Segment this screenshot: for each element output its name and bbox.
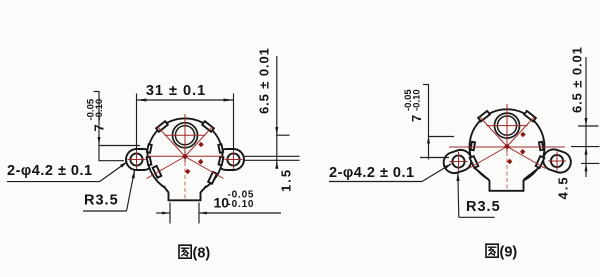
svg-text:7: 7 (92, 124, 107, 131)
bottom skirt fig9 (474, 165, 540, 191)
red crosshair right hole fig9 (548, 152, 566, 171)
ear seam marks fig9 (471, 142, 544, 150)
can notch upper-left fig8 (156, 121, 168, 131)
svg-text:7: 7 (409, 115, 424, 122)
boss outer circle fig8 (173, 123, 198, 148)
dimension 31±0.1 fig8 (137, 83, 234, 149)
red center diamond fig9 (504, 144, 510, 150)
svg-text:R3.5: R3.5 (466, 199, 501, 215)
dimension 7 -0.05/-0.10 fig9 (403, 85, 454, 160)
dimension 4.5 fig9 (556, 175, 571, 199)
svg-text:-0.10: -0.10 (228, 199, 255, 210)
red centerline horizontal fig8 (148, 155, 223, 157)
spot diamond 1 fig9 (520, 132, 525, 138)
red boss horizontal centerline fig9 (487, 125, 528, 127)
red ray upper-left fig8 (158, 127, 186, 157)
red ray upper-right fig8 (185, 127, 213, 157)
ear seam marks fig8 (147, 144, 224, 165)
svg-text:6.5 ± 0.01: 6.5 ± 0.01 (257, 47, 272, 114)
svg-text:-0.10: -0.10 (94, 99, 105, 121)
spot diamond 2 fig9 (520, 149, 525, 155)
ear right fig8 (216, 149, 244, 170)
svg-text:2-φ4.2 ± 0.1: 2-φ4.2 ± 0.1 (7, 163, 93, 179)
motor body circle fig9 (470, 109, 545, 184)
dimension 6.5±0.01 fig9 (570, 46, 600, 177)
caption 图(9) (486, 244, 517, 260)
svg-text:(8): (8) (193, 246, 211, 262)
boss outer circle fig9 (495, 113, 520, 138)
svg-text:-0.10: -0.10 (412, 89, 423, 111)
can notch upper-left fig9 (478, 111, 490, 121)
boss inner circle fig8 (175, 126, 194, 145)
can notch lower-right fig8 (208, 172, 217, 184)
boss inner circle fig9 (497, 116, 516, 135)
spot diamond 1 fig8 (198, 142, 203, 148)
ear left fig8 (126, 149, 154, 170)
red ray upper-right fig9 (507, 117, 535, 147)
svg-text:R3.5: R3.5 (84, 193, 119, 209)
mounting hole right fig8 (227, 153, 239, 165)
can notch lower-right fig9 (536, 156, 545, 168)
red centerline vertical fig8 (184, 114, 186, 200)
mounting hole left fig9 (452, 155, 464, 167)
red crosshair left hole fig8 (128, 150, 146, 169)
motor body circle fig8 (148, 118, 223, 193)
label 2-φ4.2±0.1 fig9 (329, 163, 452, 181)
mounting hole right fig9 (551, 155, 563, 167)
red crosshair left hole fig9 (450, 152, 468, 171)
caption 图(8) (179, 245, 210, 261)
svg-text:31 ± 0.1: 31 ± 0.1 (146, 83, 206, 99)
spot diamond 3 fig8 (185, 169, 190, 175)
label R3.5 fig8 (83, 170, 135, 211)
svg-text:(9): (9) (500, 245, 518, 261)
dimension 6.5±0.01 fig8 (243, 47, 300, 169)
ear left fig9 (441, 147, 474, 176)
can notch upper-right fig8 (202, 121, 214, 131)
dimension 1.5 fig8 (279, 168, 294, 192)
svg-text:2-φ4.2 ± 0.1: 2-φ4.2 ± 0.1 (329, 165, 415, 181)
bottom connector tab fig8 (164, 184, 207, 200)
red centerline vertical fig9 (506, 104, 508, 190)
label R3.5 fig9 (456, 172, 500, 218)
red ray lower-left fig8 (147, 157, 186, 179)
dimension 7 -0.05/-0.10 fig8 (86, 92, 141, 161)
mounting hole left fig8 (130, 153, 142, 165)
red ray lower-left fig9 (469, 147, 508, 169)
svg-text:6.5 ± 0.01: 6.5 ± 0.01 (570, 46, 585, 113)
red boss horizontal centerline fig8 (165, 134, 206, 136)
red ray lower-right fig9 (507, 147, 546, 169)
label 2-φ4.2±0.1 fig8 (7, 161, 128, 181)
ear right fig9 (540, 147, 573, 176)
red ray lower-right fig8 (185, 157, 224, 179)
red centerline horizontal fig9 (449, 146, 565, 148)
spot diamond 2 fig8 (198, 159, 203, 165)
can notch lower-left fig8 (153, 166, 162, 178)
dimension 10 -0.05/-0.10 fig8 (156, 189, 281, 223)
svg-text:4.5: 4.5 (556, 175, 571, 199)
red center diamond fig8 (182, 154, 188, 160)
svg-text:1.5: 1.5 (279, 168, 294, 192)
spot diamond 3 fig9 (507, 159, 512, 165)
red ray upper-left fig9 (480, 117, 508, 147)
red crosshair right hole fig8 (225, 150, 243, 169)
can notch lower-left fig9 (470, 156, 479, 168)
can notch upper-right fig9 (524, 111, 536, 121)
